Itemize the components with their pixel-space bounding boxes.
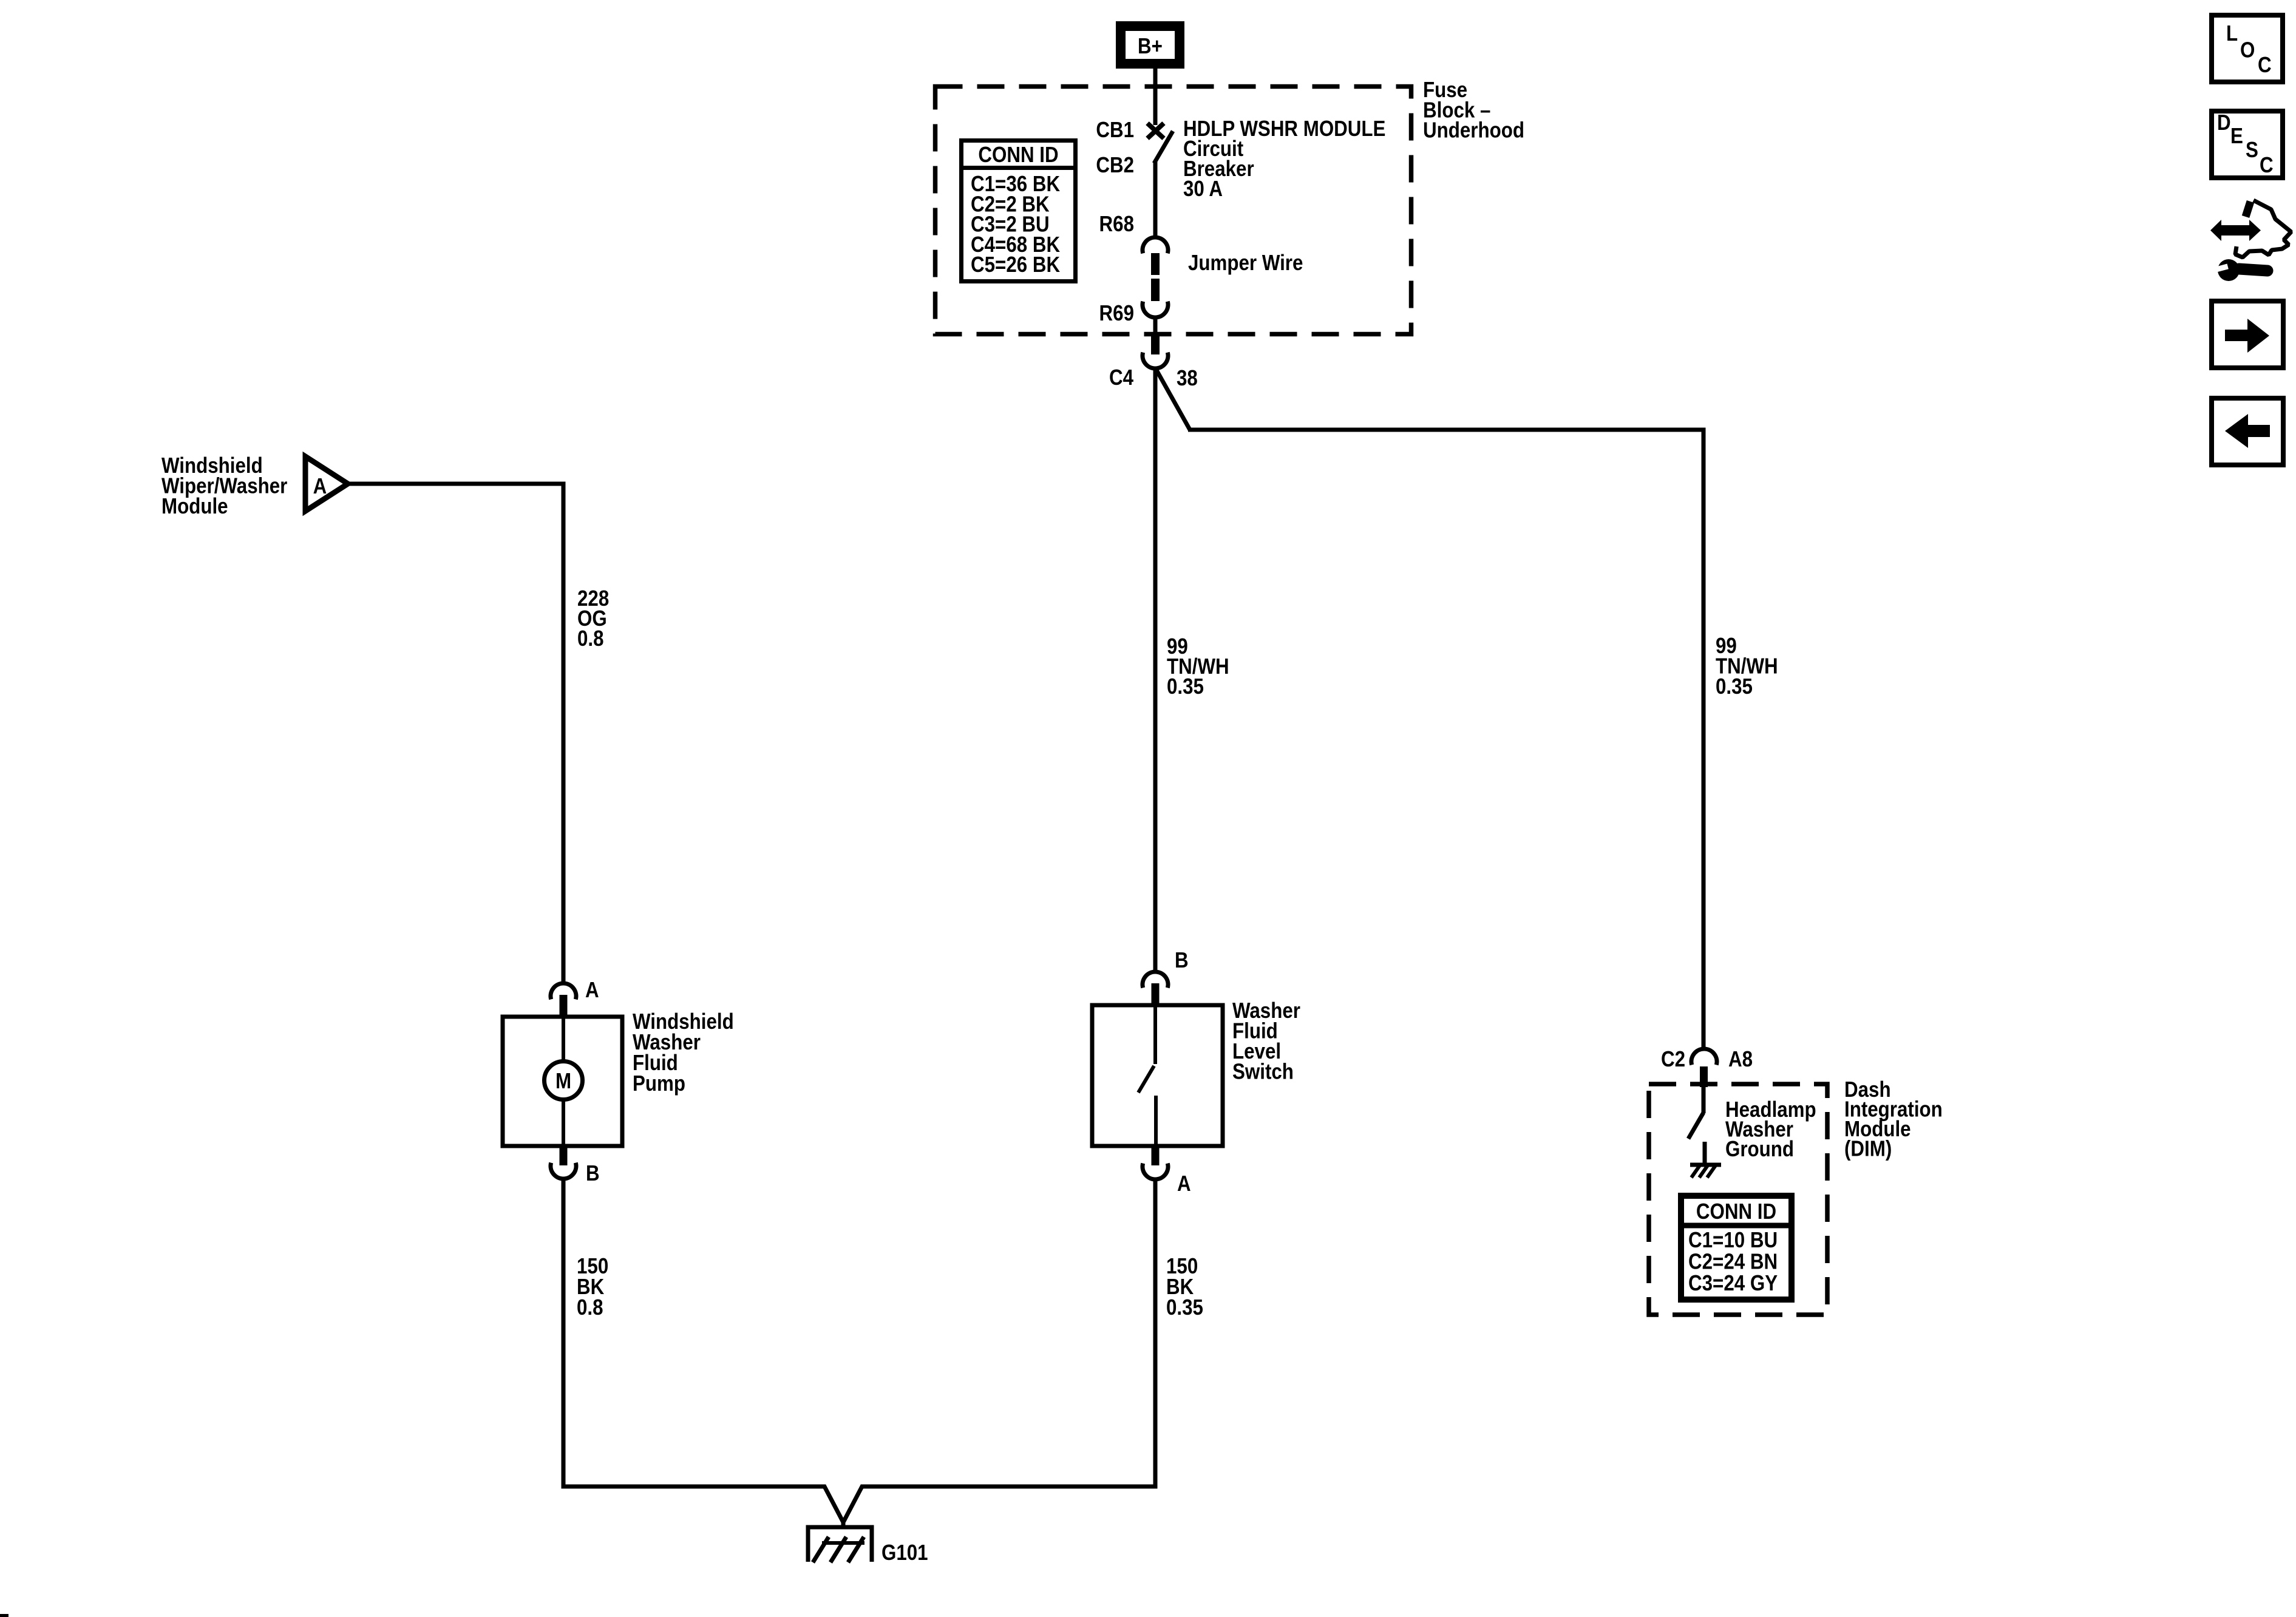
icon LOC	[2212, 15, 2283, 82]
ground junction V	[824, 1485, 863, 1522]
svg-text:A: A	[313, 474, 327, 499]
motor M	[545, 1062, 583, 1100]
svg-text:CB2: CB2	[1096, 153, 1134, 178]
svg-text:S: S	[2246, 138, 2258, 163]
pump motor wires	[562, 1017, 565, 1060]
terminal A switch	[1152, 1146, 1160, 1165]
svg-text:G101: G101	[881, 1541, 928, 1565]
connector R69	[1143, 302, 1168, 317]
CB1 terminal X	[1147, 123, 1164, 138]
wire B+ to CB1	[1153, 69, 1158, 125]
svg-text:M: M	[555, 1069, 571, 1094]
terminal B switch	[1152, 983, 1160, 1005]
DIM CONN ID table	[1678, 1196, 1795, 1300]
wire switch A to ground	[861, 1179, 1155, 1486]
terminal A pump	[560, 995, 568, 1017]
connector B pump	[551, 1163, 576, 1179]
svg-text:0.35: 0.35	[1166, 1295, 1203, 1320]
windshield washer fluid pump box	[503, 1017, 622, 1146]
headlamp washer ground switch inside DIM	[1702, 1084, 1706, 1113]
washer fluid level switch box	[1092, 1005, 1223, 1146]
svg-text:(DIM): (DIM)	[1844, 1136, 1892, 1161]
svg-text:C1=10 BU: C1=10 BU	[1688, 1228, 1778, 1253]
svg-text:A: A	[1177, 1171, 1191, 1196]
svg-text:0.35: 0.35	[1167, 674, 1204, 699]
svg-text:C: C	[2258, 53, 2272, 78]
icon next page arrow	[2212, 301, 2283, 368]
svg-text:Ground: Ground	[1725, 1137, 1794, 1162]
wire pump B to ground (circuit 150)	[563, 1179, 826, 1486]
svg-text:B: B	[586, 1161, 600, 1186]
switch contacts	[1153, 1005, 1157, 1064]
svg-text:R68: R68	[1099, 212, 1134, 237]
svg-text:D: D	[2217, 110, 2231, 135]
svg-text:38: 38	[1177, 366, 1198, 391]
fuse block CONN ID table	[959, 141, 1078, 282]
svg-text:Underhood: Underhood	[1423, 118, 1524, 143]
svg-text:Pump: Pump	[633, 1071, 685, 1096]
wire CB2 to R68	[1153, 161, 1158, 238]
icon DESC	[2212, 110, 2283, 178]
svg-text:B+: B+	[1138, 34, 1163, 59]
wire C4 to washer fluid level switch	[1153, 368, 1158, 972]
svg-text:R69: R69	[1099, 301, 1134, 326]
svg-text:0.8: 0.8	[577, 626, 604, 651]
svg-text:CONN ID: CONN ID	[1696, 1199, 1776, 1224]
off-page connector A triangle	[305, 456, 348, 511]
svg-text:Switch: Switch	[1232, 1059, 1294, 1084]
svg-text:30 A: 30 A	[1183, 177, 1223, 202]
connector A switch	[1143, 1164, 1168, 1179]
connector R68	[1143, 237, 1168, 253]
wire triangle A to pump (circuit 228)	[348, 484, 563, 984]
svg-text:E: E	[2230, 124, 2243, 149]
svg-text:Module: Module	[161, 494, 228, 519]
wire branch to DIM (circuit 38/99)	[1156, 369, 1190, 430]
DIM dashed box	[1649, 1084, 1827, 1315]
svg-text:CONN ID: CONN ID	[978, 143, 1058, 168]
svg-text:C: C	[2260, 153, 2274, 178]
terminal A8	[1700, 1066, 1708, 1087]
terminal B pump	[560, 1146, 568, 1165]
svg-text:A8: A8	[1728, 1047, 1753, 1072]
ground symbol inside DIM	[1690, 1165, 1721, 1178]
svg-text:0.35: 0.35	[1716, 674, 1753, 699]
svg-text:C3=24 GY: C3=24 GY	[1688, 1271, 1778, 1296]
svg-text:L: L	[2226, 21, 2238, 46]
svg-text:A: A	[585, 978, 599, 1003]
svg-text:0.8: 0.8	[577, 1295, 603, 1320]
svg-text:C4: C4	[1109, 365, 1133, 390]
svg-text:C5=26 BK: C5=26 BK	[971, 253, 1061, 277]
terminal 38 at C4	[1151, 336, 1160, 354]
fuse block dashed box	[936, 87, 1411, 334]
power feed B+	[1116, 21, 1184, 69]
svg-text:Jumper Wire: Jumper Wire	[1188, 251, 1303, 276]
svg-text:O: O	[2240, 38, 2255, 63]
page corner mark	[0, 1614, 8, 1617]
icon previous page arrow	[2212, 398, 2283, 465]
svg-text:C2=24 BN: C2=24 BN	[1688, 1249, 1778, 1274]
ground G101	[808, 1527, 872, 1562]
svg-text:B: B	[1175, 948, 1189, 973]
icon diagnostic arrow wrench	[2210, 200, 2291, 281]
svg-text:C2: C2	[1661, 1047, 1685, 1072]
connector A pump	[551, 983, 576, 999]
jumper wire terminal R68	[1151, 253, 1160, 275]
svg-text:CB1: CB1	[1096, 118, 1134, 143]
wire R69 to C4	[1153, 317, 1158, 337]
circuit breaker blade CB1-CB2	[1154, 131, 1173, 163]
jumper wire terminal R69	[1151, 279, 1160, 301]
connector C4	[1143, 353, 1168, 368]
